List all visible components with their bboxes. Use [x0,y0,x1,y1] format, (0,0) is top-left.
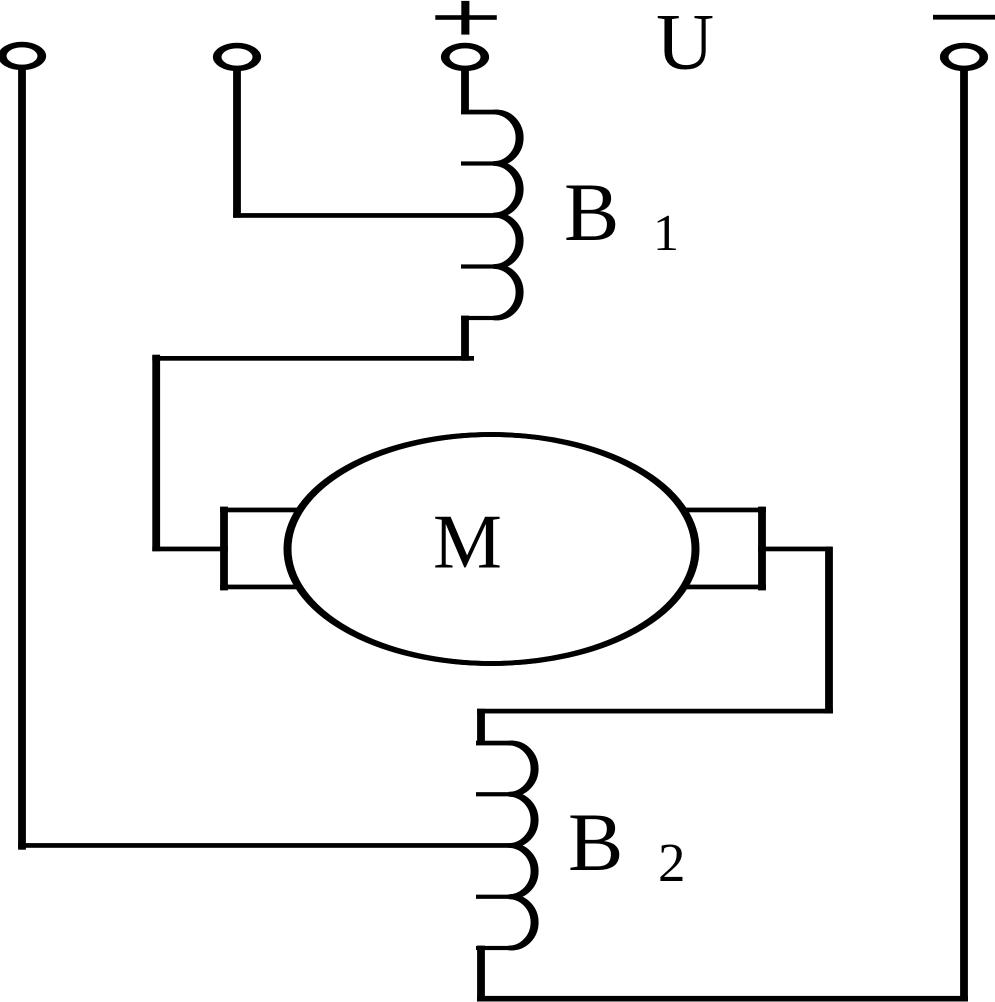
coil B2 return segment 2 [476,895,515,899]
wire: tap from terminal 2 to B1 mid-tap (y=215) [233,213,499,218]
svg-text:1: 1 [653,205,679,262]
svg-text:2: 2 [658,832,686,893]
wire: right brush to right drop y=549 [758,547,832,552]
svg-text:B: B [564,166,619,258]
plus sign (+ polarity mark) [435,1,497,35]
wire: right vertical drop x=829 [825,547,833,714]
coil B1 return segment 2 [461,264,500,268]
minus sign (- polarity mark) [933,15,995,20]
coil B1 bottom return [461,316,500,320]
wire: horizontal y=710 to B2 [477,709,833,714]
right brush rectangle [662,507,766,591]
terminal 2 [213,43,261,71]
coil B2 return segment 1 [476,792,515,796]
coil B2 bottom return [476,946,515,950]
wire: terminal 4 stem down (right vertical) [960,66,968,1002]
wire: B1 bottom feed down [461,316,469,361]
terminal 4 (-) [940,43,988,71]
svg-text:M: M [433,498,502,584]
coil B2 top connector [476,741,514,746]
coil B1 top connector [461,110,499,115]
coil B1 (field winding, 4 loops) [493,112,521,318]
wire: horizontal y=549 into left brush [152,547,228,552]
coil B1 return segment 1 [461,161,500,165]
wire: terminal 2 stem down [233,68,241,218]
svg-text:B: B [568,796,623,888]
wire: tap from terminal 1 to B2 mid-tap (y=845) [18,843,514,848]
coil B2 (field winding, 4 loops) [508,743,536,948]
motor armature ellipse M [286,435,697,664]
label B2 [568,796,686,893]
wire: terminal 3 stem down to B1 [461,66,469,114]
terminal 1 (top-left) [0,42,46,70]
label B1 [564,166,679,262]
wire: B2 top feed down [477,709,485,745]
wire: terminal 1 stem down [18,66,26,850]
terminal 3 (+) [441,43,489,71]
wire: horizontal y=358 from B1 to left drop [152,356,474,361]
left brush rectangle [220,507,320,591]
wire: B2 bottom feed down [477,946,485,1002]
wire: bottom horizontal y=998 [477,996,968,1002]
wire: left vertical drop x=156 [152,355,160,552]
svg-text:U: U [656,0,714,87]
